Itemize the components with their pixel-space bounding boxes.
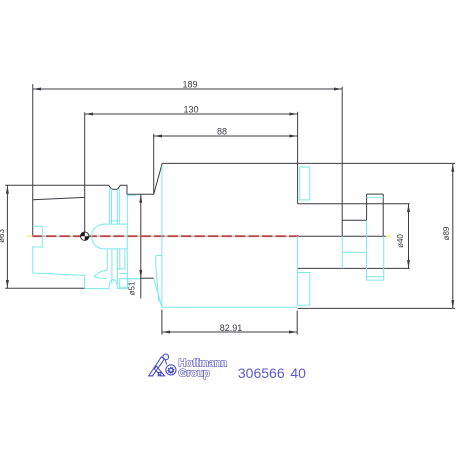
svg-text:ø51: ø51 xyxy=(127,281,136,295)
cyan internal: lower wing and foot xyxy=(85,270,128,289)
svg-text:130: 130 xyxy=(183,105,198,115)
svg-text:40: 40 xyxy=(290,365,306,381)
svg-text:Group: Group xyxy=(178,367,210,379)
cyan internal: flange section verticals lower xyxy=(107,249,140,287)
body outline: bottom black pieces xyxy=(5,278,154,288)
body outline: right section xyxy=(298,194,456,308)
dimension 189 xyxy=(33,84,342,236)
centerline gray underlay xyxy=(32,235,299,237)
dimension 82.91 xyxy=(162,310,297,335)
cyan internal: right section rectangles xyxy=(297,167,383,306)
centerline red dashes xyxy=(33,235,299,237)
origin point symbol xyxy=(81,232,89,240)
extension lines right xyxy=(298,87,343,236)
dimension diameter 51 xyxy=(140,194,142,298)
dimension 130 xyxy=(85,112,298,236)
logo gear xyxy=(167,366,175,374)
dimension diameter 89 xyxy=(452,163,454,308)
svg-text:ø63: ø63 xyxy=(0,229,6,243)
svg-text:82.91: 82.91 xyxy=(220,323,243,333)
dimension diameter 63 xyxy=(6,185,8,288)
body outline: shank top xyxy=(5,163,455,199)
centerline yellow end ticks xyxy=(27,235,32,237)
cyan internal: capsule xyxy=(92,224,128,249)
svg-text:306566: 306566 xyxy=(238,365,285,381)
Hoffmann Group logo mark xyxy=(148,354,176,376)
centerline dark right segment xyxy=(299,235,386,237)
svg-text:ø89: ø89 xyxy=(442,226,451,240)
dimension diameter 40 xyxy=(408,204,410,269)
svg-text:ø40: ø40 xyxy=(396,234,405,248)
cyan internal: cylinder left inner wall and bottom xyxy=(128,166,297,307)
dimension 88 xyxy=(154,134,298,195)
svg-text:88: 88 xyxy=(217,127,227,137)
svg-text:189: 189 xyxy=(182,80,197,90)
cyan internal: left bore profile xyxy=(33,226,85,288)
cyan internal: flange section verticals upper xyxy=(109,188,136,288)
